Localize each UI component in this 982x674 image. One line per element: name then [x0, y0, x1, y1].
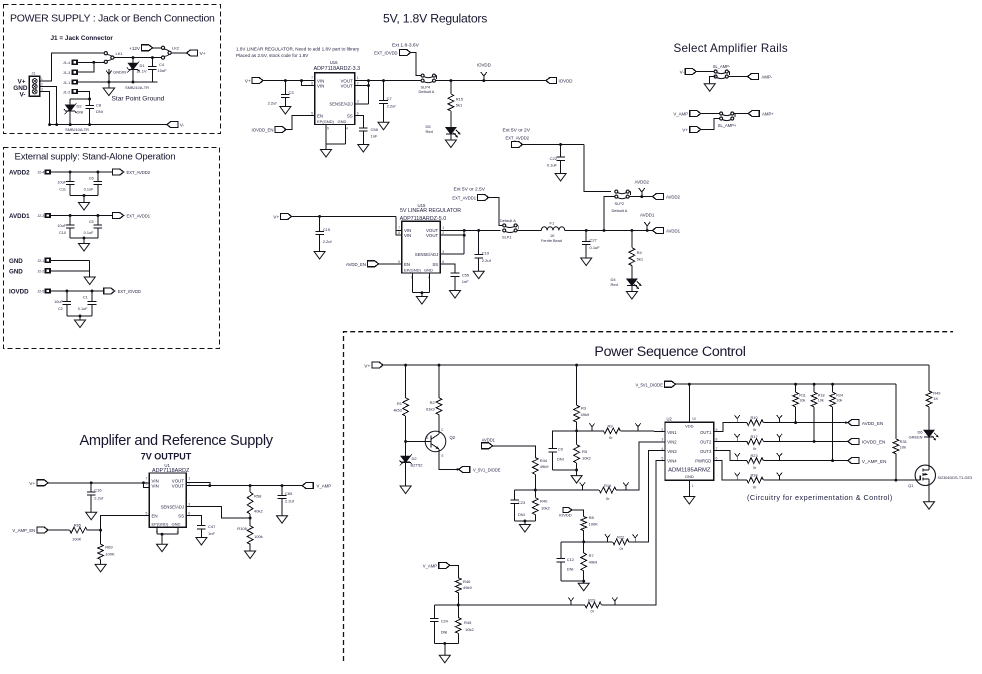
link SL_AMP+ — [720, 112, 735, 121]
wire OUT1 — [714, 423, 747, 432]
ground U1 — [157, 544, 168, 552]
transistor Q1 mosfet — [908, 465, 972, 488]
wire VOUT1 U1 — [186, 482, 211, 487]
svg-text:C19: C19 — [482, 250, 490, 255]
svg-text:V-: V- — [180, 123, 185, 129]
svg-text:VIN4: VIN4 — [667, 459, 677, 464]
tag AVDD2 out — [653, 194, 681, 200]
wire OUT3 — [714, 451, 747, 461]
wire V_AMP node to R29 — [458, 604, 585, 606]
svg-text:2: 2 — [41, 82, 43, 86]
svg-text:5: 5 — [311, 112, 313, 116]
resistor R8 — [581, 515, 598, 543]
svg-text:C27: C27 — [590, 237, 598, 242]
wire U2 VDD — [688, 384, 690, 422]
resistor R4 — [629, 230, 644, 279]
svg-text:R17: R17 — [751, 434, 758, 439]
resistor R24 — [830, 384, 843, 462]
svg-text:40k2: 40k2 — [254, 508, 263, 513]
svg-text:R2: R2 — [430, 400, 436, 405]
svg-text:2.2uf: 2.2uf — [285, 499, 295, 504]
resistor R49 — [926, 365, 940, 430]
resistor R10 — [747, 415, 764, 432]
ground D2 zener — [400, 486, 411, 494]
jumper J1-4 — [63, 60, 78, 65]
link LK2 — [161, 46, 179, 60]
svg-text:IOVDD: IOVDD — [559, 513, 572, 518]
ground C16 — [86, 512, 97, 520]
svg-text:49k9: 49k9 — [581, 412, 590, 417]
svg-text:5: 5 — [661, 457, 663, 461]
svg-text:Ext 1.8-3.6V: Ext 1.8-3.6V — [392, 43, 420, 49]
svg-text:V_AMP: V_AMP — [317, 484, 332, 489]
svg-text:C58: C58 — [371, 127, 379, 132]
svg-text:OUT2: OUT2 — [700, 440, 712, 445]
ground GND09 — [106, 69, 127, 82]
tag EXT_IOVDD label — [118, 289, 141, 294]
svg-text:J2-1: J2-1 — [37, 259, 44, 263]
svg-text:5: 5 — [146, 512, 148, 516]
svg-text:R38: R38 — [751, 473, 758, 478]
tag V_AMP out — [302, 483, 331, 489]
svg-text:49k9: 49k9 — [540, 464, 549, 469]
wire SS to C47 — [186, 516, 201, 526]
svg-text:Q1: Q1 — [908, 483, 914, 488]
testpoint Y R22 left — [605, 534, 610, 542]
wire PWRGD — [714, 461, 747, 481]
svg-text:DNI: DNI — [567, 567, 574, 572]
svg-text:R23: R23 — [751, 453, 758, 458]
link SLP4 — [419, 74, 437, 94]
regulator U16 — [311, 73, 359, 131]
wire SLP4 to IOVDD tag — [435, 79, 548, 82]
resistor R38 — [747, 473, 764, 490]
svg-text:2: 2 — [661, 428, 663, 432]
svg-text:J1-3: J1-3 — [63, 71, 70, 75]
svg-text:AVDD1: AVDD1 — [482, 437, 496, 442]
svg-text:AVDD_EN: AVDD_EN — [346, 262, 366, 267]
svg-text:C8: C8 — [96, 103, 102, 108]
ground SL_AMP- — [704, 84, 715, 92]
svg-text:VIN1: VIN1 — [667, 430, 677, 435]
svg-text:V+: V+ — [682, 128, 688, 133]
ferrite bead F1 — [541, 220, 565, 243]
svg-text:6: 6 — [188, 512, 190, 516]
svg-text:IOVDD_EN: IOVDD_EN — [252, 128, 274, 133]
link SLP1 — [500, 218, 518, 239]
svg-text:R16: R16 — [604, 483, 612, 488]
svg-text:EXT_AVDD2: EXT_AVDD2 — [127, 170, 151, 175]
svg-text:3: 3 — [188, 503, 190, 507]
wire C9 R5 join — [553, 469, 577, 471]
external GND rows — [9, 258, 95, 285]
svg-text:R4: R4 — [637, 250, 643, 255]
svg-text:Ext 5V or 2V: Ext 5V or 2V — [503, 128, 531, 134]
capacitor C15 — [315, 216, 332, 251]
testpoint Y R9 left — [589, 423, 594, 431]
resistor R2 — [426, 365, 442, 432]
svg-text:BZT52: BZT52 — [411, 463, 424, 468]
wire U15 bottom gnd — [413, 273, 430, 297]
connector J1 — [29, 72, 43, 97]
svg-text:10k: 10k — [799, 398, 805, 402]
tag V+ U15 — [273, 213, 396, 220]
resistor R108 — [237, 526, 262, 551]
link LK1 — [104, 51, 123, 63]
ground D4 — [626, 292, 637, 300]
LED D5 — [426, 124, 461, 140]
link SL_AMP- — [713, 64, 731, 79]
svg-text:J2-2: J2-2 — [37, 270, 44, 274]
resistor R15 — [448, 81, 464, 128]
wire R23 to V_AMP_EN — [763, 460, 848, 462]
resistor R5 — [574, 445, 592, 476]
svg-text:AMP+: AMP+ — [762, 112, 774, 117]
svg-text:C6: C6 — [89, 176, 94, 180]
LED D4 — [611, 277, 642, 292]
svg-text:Ext 5V or 2.5V: Ext 5V or 2.5V — [454, 186, 486, 192]
svg-text:ADM1185ARMZ: ADM1185ARMZ — [668, 468, 711, 474]
svg-text:R7: R7 — [589, 553, 595, 558]
bottom V- rail — [48, 123, 167, 126]
tag V_5V1_DIODE out — [459, 466, 501, 472]
svg-text:5V, 1.8V Regulators: 5V, 1.8V Regulators — [383, 12, 487, 26]
wire U1 output rail — [186, 484, 302, 487]
svg-text:R29: R29 — [588, 597, 596, 602]
svg-text:V-: V- — [680, 70, 685, 75]
svg-text:GND: GND — [172, 521, 181, 526]
ground U16 — [321, 150, 332, 158]
svg-text:C12: C12 — [567, 557, 574, 562]
wire R22 to VIN3 — [629, 451, 665, 542]
diode D2 zener — [399, 441, 423, 486]
svg-text:J1 = Jack Connector: J1 = Jack Connector — [51, 35, 114, 42]
svg-text:AVDD2: AVDD2 — [666, 195, 681, 200]
svg-text:SS: SS — [178, 514, 184, 519]
wire R9 to VIN1 — [620, 430, 665, 433]
svg-text:0.1uF: 0.1uF — [84, 231, 94, 235]
svg-text:7: 7 — [146, 476, 148, 480]
svg-text:External supply: Stand-Alone O: External supply: Stand-Alone Operation — [15, 152, 176, 163]
label SL_AMP+ — [718, 123, 737, 128]
svg-text:1: 1 — [41, 77, 43, 81]
jumper J1-1 — [63, 79, 78, 85]
svg-text:V+: V+ — [29, 481, 35, 487]
ground R45 — [439, 655, 450, 663]
ground C19 — [473, 271, 484, 279]
regulator U1 — [146, 473, 191, 534]
wire J1 pin2 down — [40, 86, 57, 124]
svg-text:EP(GND): EP(GND) — [152, 521, 170, 526]
external supply border — [4, 148, 220, 349]
tag EXT_AVDD2 — [503, 128, 585, 148]
svg-text:LK2: LK2 — [172, 46, 180, 51]
resistor R18 — [811, 384, 824, 443]
svg-text:J1-4: J1-4 — [63, 61, 70, 65]
tag AVDD_EN out — [845, 420, 883, 426]
svg-text:R49: R49 — [933, 391, 940, 396]
svg-text:100K: 100K — [72, 537, 82, 542]
wire R10 to AVDD_EN — [763, 422, 848, 424]
note J1 = Jack Connector — [51, 35, 114, 42]
capacitor C8 — [85, 99, 103, 125]
ground C27 — [581, 258, 592, 266]
svg-text:4: 4 — [346, 127, 348, 131]
testpoint Y OUT1 left — [735, 415, 740, 423]
svg-text:Ferrite Bead: Ferrite Bead — [541, 239, 562, 243]
capacitor C4 — [148, 58, 167, 82]
regulator U15 — [398, 221, 444, 279]
capacitor C9 — [548, 446, 563, 470]
wire R17 to IOVDD_EN — [763, 440, 848, 442]
svg-text:Star Point Ground: Star Point Ground — [112, 96, 165, 103]
wire J1 pin3 down — [40, 92, 50, 125]
svg-text:R5: R5 — [582, 449, 588, 454]
svg-text:6: 6 — [442, 260, 444, 264]
svg-text:EN: EN — [152, 514, 158, 519]
ground R7 — [578, 583, 589, 591]
wire SENSE U1 — [186, 507, 251, 520]
svg-text:SMBJ10A-TR: SMBJ10A-TR — [65, 127, 89, 132]
wire R38 to gate — [763, 479, 911, 482]
svg-text:2: 2 — [442, 231, 444, 235]
wire SLP1 to ferrite — [517, 229, 541, 231]
svg-text:J1: J1 — [32, 72, 36, 76]
svg-text:R31: R31 — [900, 439, 907, 444]
ground C65 — [277, 516, 288, 524]
regulators title — [383, 12, 487, 26]
wire R8 node to R22 — [584, 541, 613, 543]
wire J1-1 star rail — [78, 81, 158, 83]
svg-text:3: 3 — [442, 250, 444, 254]
transistor Q2 — [406, 428, 456, 458]
wire Q1 source — [928, 484, 930, 502]
svg-text:7V OUTPUT: 7V OUTPUT — [141, 452, 192, 462]
capacitor C12 — [557, 542, 584, 581]
wire SL_AMP+ out — [734, 113, 749, 115]
svg-text:EXT_AVDD1: EXT_AVDD1 — [127, 214, 151, 219]
resistor R46 — [455, 578, 472, 607]
external supply title — [15, 152, 176, 163]
svg-text:GND09: GND09 — [113, 70, 127, 75]
svg-text:1: 1 — [442, 226, 444, 230]
tag V_AMP seq — [423, 562, 459, 577]
svg-text:IOVDD: IOVDD — [477, 63, 491, 68]
ground U2 — [684, 497, 695, 505]
wire node to R16 — [535, 489, 599, 491]
resistor R3 — [574, 365, 590, 445]
svg-text:Default A: Default A — [500, 218, 516, 223]
svg-text:R44: R44 — [540, 458, 548, 463]
testpoint Y R29 left — [568, 598, 573, 606]
regulator U1 name — [152, 463, 190, 474]
ground C58 — [358, 145, 369, 153]
svg-text:SL_AMP-: SL_AMP- — [713, 64, 731, 69]
svg-text:V_5V1_DIODE: V_5V1_DIODE — [635, 382, 663, 387]
capacitor C24 — [430, 605, 458, 643]
svg-text:SLP1: SLP1 — [502, 235, 512, 240]
svg-text:C1: C1 — [83, 296, 88, 300]
ground C55 — [450, 291, 461, 299]
capacitor C7 — [379, 81, 396, 123]
svg-text:8: 8 — [398, 231, 400, 235]
wire U16 bottom gnd — [326, 125, 345, 150]
testpoint Y OUT3 right — [777, 453, 782, 461]
svg-text:100K: 100K — [589, 521, 599, 526]
svg-text:DNI: DNI — [518, 512, 525, 517]
wire C12 R7 join — [561, 580, 585, 584]
svg-text:PWRGD: PWRGD — [695, 459, 711, 464]
svg-text:0.1uF: 0.1uF — [590, 245, 601, 250]
svg-text:C16: C16 — [94, 488, 102, 493]
svg-text:VOUT: VOUT — [172, 484, 185, 489]
resistor R44 — [532, 458, 549, 498]
capacitor C58 — [359, 127, 379, 145]
svg-text:10k2: 10k2 — [465, 627, 474, 632]
svg-text:VIN: VIN — [317, 83, 324, 88]
wire U2 GND — [688, 480, 690, 496]
tag V_AMP_EN — [12, 527, 69, 533]
svg-text:DNI: DNI — [96, 109, 103, 114]
link SLP2 — [612, 190, 631, 213]
label V+ — [18, 79, 26, 86]
wire U15 output rail — [440, 229, 500, 232]
ground C23 R40 — [519, 525, 530, 533]
svg-text:C11: C11 — [59, 187, 66, 191]
svg-text:J1-1: J1-1 — [63, 81, 70, 85]
svg-text:0.1uF: 0.1uF — [547, 163, 558, 168]
tag AVDD1 seq — [482, 437, 536, 457]
testpoint Y R22 right — [633, 534, 638, 542]
wire R16 to VIN2 — [616, 442, 665, 490]
power supply section border — [4, 5, 221, 134]
capacitor C47 — [197, 524, 216, 538]
wire SS to C55 — [440, 264, 455, 273]
wire SLP2 up from rail — [604, 197, 615, 231]
tag V+ out — [187, 50, 206, 57]
svg-text:U2: U2 — [667, 417, 673, 422]
svg-text:R69: R69 — [105, 545, 113, 550]
ground R108 — [245, 551, 256, 559]
svg-text:EXT_AVDD1: EXT_AVDD1 — [452, 196, 476, 201]
testpoint Y R16 left — [580, 483, 585, 491]
svg-text:OUT1: OUT1 — [700, 430, 712, 435]
wire C23 R40 join — [515, 520, 536, 525]
svg-text:DNI: DNI — [557, 456, 564, 461]
IC U2 ADM1185 — [661, 417, 717, 488]
svg-text:9: 9 — [327, 127, 329, 131]
svg-text:Amplifer and Reference Supply: Amplifer and Reference Supply — [80, 433, 274, 449]
capacitor C16 — [87, 483, 104, 513]
svg-text:Red: Red — [426, 129, 433, 134]
capacitor C19 — [474, 230, 491, 271]
svg-text:V_AMP: V_AMP — [673, 112, 688, 117]
note 5V regulator — [400, 203, 461, 214]
ground C15 — [314, 252, 325, 260]
svg-text:+12V: +12V — [129, 46, 141, 51]
wire J1-3 junction — [78, 61, 95, 72]
svg-text:EXT_IOVDD: EXT_IOVDD — [118, 289, 141, 294]
tag V+ U1 — [29, 480, 149, 487]
svg-text:R10: R10 — [751, 415, 759, 420]
external AVDD1 row — [9, 213, 124, 252]
wire VOUT2 SENSE loop — [355, 81, 370, 104]
resistor R11 — [793, 384, 806, 424]
svg-text:C15: C15 — [323, 227, 331, 232]
svg-text:0.1uF: 0.1uF — [78, 307, 88, 311]
svg-text:Red: Red — [611, 282, 618, 287]
svg-text:C22: C22 — [550, 156, 558, 161]
wire node to C9 — [553, 431, 577, 449]
svg-text:SS: SS — [347, 114, 353, 119]
ground Q1 — [924, 502, 935, 510]
svg-text:2.2uf: 2.2uf — [323, 239, 333, 244]
tag AVDD_EN — [346, 261, 402, 267]
tag V- out — [167, 122, 185, 129]
capacitor C55 — [451, 273, 470, 291]
wire SL_AMP- out — [728, 76, 747, 78]
testpoint Y OUT2 right — [777, 434, 782, 442]
tag IOVDD_EN out — [848, 438, 886, 444]
svg-text:10uF: 10uF — [54, 300, 63, 304]
svg-text:V+: V+ — [200, 51, 206, 57]
svg-text:SMBJ10A-TR: SMBJ10A-TR — [125, 85, 149, 90]
svg-text:1: 1 — [188, 476, 190, 480]
wire U1 bottom gnd — [157, 527, 178, 544]
svg-text:1: 1 — [692, 484, 694, 488]
svg-text:R58: R58 — [254, 493, 262, 498]
tag EXT_AVDD1 — [452, 186, 503, 225]
diode D1 — [125, 58, 149, 90]
svg-text:7: 7 — [311, 76, 313, 80]
svg-text:EXT_IOVDD: EXT_IOVDD — [374, 50, 397, 55]
capacitor C22 — [547, 145, 565, 174]
select amplifier rails title — [674, 42, 788, 55]
tag AMP+ out — [748, 111, 774, 117]
svg-text:V_5V1_DIODE: V_5V1_DIODE — [473, 468, 501, 473]
resistor R65 — [70, 523, 87, 542]
wire SL_AMP- gnd — [710, 77, 716, 84]
svg-text:R15: R15 — [456, 96, 464, 101]
svg-text:C7: C7 — [387, 96, 393, 101]
svg-text:C47: C47 — [208, 524, 216, 529]
svg-text:1.8V LINEAR REGULATOR, Need to: 1.8V LINEAR REGULATOR, Need to add 1.8V … — [236, 47, 360, 52]
svg-text:SL_AMP+: SL_AMP+ — [718, 123, 737, 128]
wire J1 pin1 to LK1 — [40, 53, 105, 81]
external IOVDD row — [9, 288, 115, 328]
svg-text:VIN2: VIN2 — [667, 440, 677, 445]
svg-text:1K: 1K — [550, 234, 555, 238]
tag V_5V1_DIODE in — [635, 381, 675, 387]
svg-text:IOVDD: IOVDD — [559, 79, 573, 84]
wire SS to C58 — [355, 116, 363, 128]
svg-text:J2-5: J2-5 — [37, 290, 44, 294]
svg-text:EN: EN — [404, 262, 410, 267]
svg-text:U16: U16 — [330, 60, 338, 65]
svg-text:U15: U15 — [418, 203, 426, 208]
tag AVDD1 out — [653, 227, 681, 233]
svg-text:C3: C3 — [289, 90, 295, 95]
svg-text:GND: GND — [685, 474, 694, 479]
svg-text:C5: C5 — [89, 220, 94, 224]
testpoint Y R9 right — [635, 423, 640, 431]
svg-text:ADP7118ARDZ-3.3: ADP7118ARDZ-3.3 — [314, 66, 361, 72]
svg-text:1: 1 — [357, 76, 359, 80]
resistor R29 — [585, 597, 602, 613]
svg-text:SENSE/ADJ: SENSE/ADJ — [329, 102, 352, 107]
wire OUT2 — [714, 440, 747, 442]
wire C24 R45 join — [434, 642, 458, 655]
